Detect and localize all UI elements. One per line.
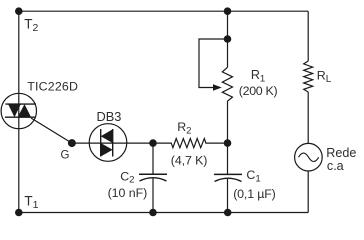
wire: right branch vertical upper (top rail to RL) [307,11,309,61]
wire: right branch vertical lower (AC source to bottom rail) [307,171,309,213]
triac TIC226D: left triangle (pointing down) [8,104,21,117]
node: junction dot middle branch on top rail [224,7,232,15]
triac TIC226D: right triangle (pointing up) [18,104,32,117]
capacitor C1: top plate [214,173,242,175]
wire: C1 bottom lead to bottom rail [227,179,229,213]
potentiometer R1: wiper arrowhead [213,84,222,90]
svg-text:T2: T2 [24,16,38,34]
wire: R1 bottom lead down to junction [227,101,229,143]
svg-text:Rede: Rede [326,146,356,160]
AC source: sine wave [299,153,319,161]
wire: potentiometer wiper loop [199,39,228,88]
svg-text:RL: RL [317,69,332,85]
svg-text:(10 nF): (10 nF) [108,186,148,200]
wire: right branch vertical middle (RL to AC source) [307,92,309,143]
svg-text:C1: C1 [246,168,260,184]
node: junction dot diac/R2/C2 [149,139,157,147]
resistor RL zigzag [304,61,313,92]
diac DB3: envelope circle [89,124,127,162]
node: junction dot C2 on bottom rail [149,209,157,217]
svg-text:DB3: DB3 [97,109,122,124]
wire: middle branch from top rail down to R1 [227,11,229,67]
node: junction dot potentiometer wiper tie [224,35,232,43]
wire: bottom rail from T1 to bottom-right corner [19,212,308,214]
capacitor C2: top plate [139,173,167,175]
capacitor C1: curved bottom plate [215,178,242,181]
wire: C2 bottom lead to bottom rail [152,179,154,213]
wire: top rail from T2 to top-right corner [19,10,308,12]
wire: C2 branch top lead [152,143,154,174]
wire: C1 branch top lead [227,143,229,174]
diac DB3: left bar [100,129,102,157]
svg-text:R1: R1 [251,68,265,84]
node: junction dot R2/R1/C1 [224,139,232,147]
capacitor C2: curved bottom plate [140,178,167,181]
svg-text:(4,7 K): (4,7 K) [171,154,207,168]
svg-text:(200 K): (200 K) [239,84,278,98]
triac Q1 TIC226D: envelope circle [1,93,36,128]
diac DB3: right bar [112,129,114,157]
svg-text:c.a: c.a [327,159,344,173]
resistor R2 zigzag with leads [153,139,228,148]
diac DB3: lower triangle (pointing right) [101,143,113,157]
potentiometer R1: zigzag body [222,67,232,101]
svg-text:R2: R2 [177,120,191,136]
svg-text:T1: T1 [24,194,38,212]
svg-text:TIC226D: TIC226D [27,79,78,93]
diac DB3: upper triangle (pointing left) [101,129,113,143]
node: G junction dot [68,139,76,147]
wire: gate lead from triac to node G [31,118,72,143]
node: T1 junction dot [15,209,23,217]
wire: gate node G through diac to R2/C2 junction [72,142,153,144]
AC source: envelope circle [295,143,323,171]
triac TIC226D: top bar [5,103,36,105]
node: junction dot C1 on bottom rail [224,209,232,217]
svg-text:C2: C2 [120,169,134,185]
node: T2 junction dot [15,7,23,15]
wire: left branch vertical (T2 terminal through triac to T1) [18,11,20,212]
svg-text:G: G [61,150,70,162]
triac TIC226D: bottom bar [5,116,36,118]
svg-text:(0,1 µF): (0,1 µF) [233,187,275,201]
